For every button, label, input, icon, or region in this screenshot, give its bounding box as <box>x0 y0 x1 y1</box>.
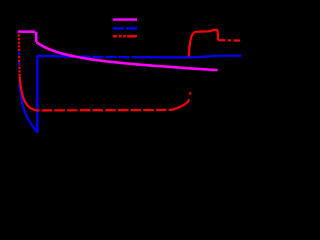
blue curve dash peek 2 on plunge <box>18 62 20 65</box>
red curve rise dot <box>189 92 192 94</box>
magenta curve drop <box>35 32 38 42</box>
red curve decay bend <box>19 75 37 110</box>
legend magenta solid sample <box>113 18 137 20</box>
red curve dashed horizontal bottom line <box>38 109 173 112</box>
red curve upper rise to plateau <box>189 30 218 57</box>
legend red dash-dot-dot sample <box>113 35 137 37</box>
blue curve dash peek 1 on plunge <box>18 53 20 56</box>
blue curve horizontal solid first stretch <box>37 55 76 58</box>
red curve steep dashed plunge at left <box>18 31 21 75</box>
red curve solid bend-up before rise <box>172 99 189 110</box>
plot background <box>0 0 249 175</box>
red curve dashed tail at right <box>218 39 240 41</box>
blue curve vertical jump up <box>36 56 38 134</box>
blue curve horizontal solid right stretch <box>133 56 242 58</box>
magenta curve plateau <box>19 31 35 32</box>
legend blue dashed sample <box>113 27 137 29</box>
magenta curve slow decay <box>36 42 217 70</box>
blue curve decay bend to bottom <box>19 83 37 133</box>
blue curve dashed horizontal middle stretch <box>77 55 133 58</box>
